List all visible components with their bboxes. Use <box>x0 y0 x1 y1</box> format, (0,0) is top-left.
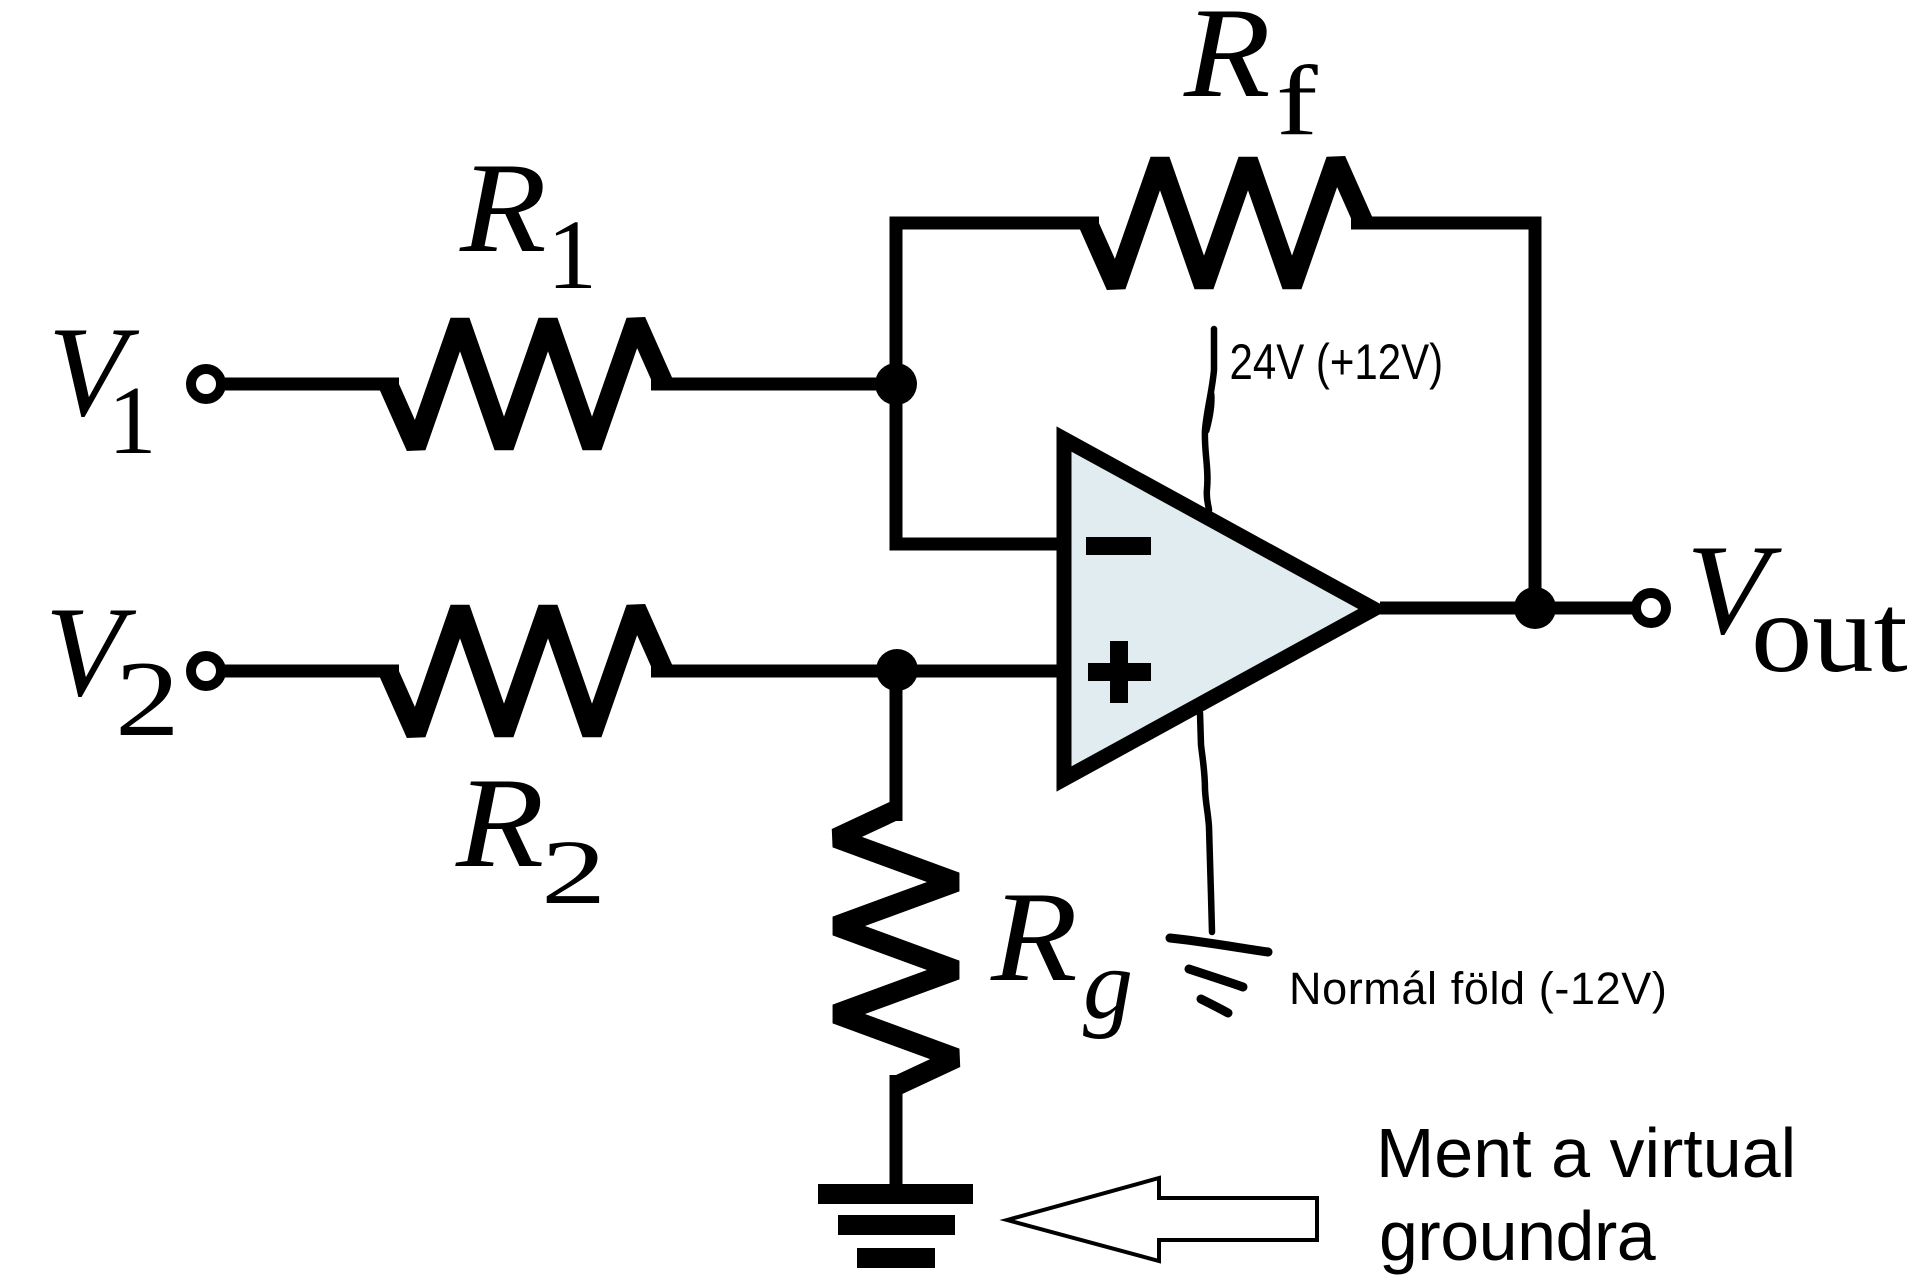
svg-text:1: 1 <box>108 367 157 474</box>
ground annotation line <box>1200 713 1212 932</box>
op-amp U1 <box>1064 439 1374 779</box>
svg-text:g: g <box>1083 929 1133 1040</box>
svg-text:2: 2 <box>541 822 606 924</box>
svg-text:1: 1 <box>547 199 597 310</box>
label V1 <box>48 300 157 474</box>
svg-text:R: R <box>1183 0 1271 125</box>
wire Rg to ground <box>890 1075 903 1194</box>
resistor Rg <box>836 810 956 1086</box>
node B (non-inverting junction) <box>876 649 918 691</box>
svg-text:Normál föld (-12V): Normál föld (-12V) <box>1289 963 1667 1014</box>
wire R2 to non-inverting input <box>651 665 1062 678</box>
resistor R2 <box>388 608 664 734</box>
wire node A up to feedback corner <box>896 223 1099 390</box>
svg-text:R: R <box>990 866 1078 1009</box>
label R1 <box>459 137 597 310</box>
wire V2 to R2 <box>221 665 399 678</box>
wire node A down to inverting input <box>896 378 1062 544</box>
label Ment a virtual groundra <box>1376 1114 1796 1275</box>
svg-text:f: f <box>1276 46 1318 156</box>
wire R1 to node A <box>651 378 902 391</box>
ground <box>818 1184 973 1268</box>
label V2 <box>45 580 180 759</box>
hand-drawn normal ground mark <box>1170 938 1268 1013</box>
svg-text:R: R <box>455 751 544 894</box>
plus sign (non-inverting input) <box>1088 641 1151 703</box>
output terminal Vout <box>1636 593 1666 623</box>
label R2 <box>455 751 606 923</box>
supply annotation line <box>1205 329 1214 510</box>
resistor Rf <box>1088 160 1364 286</box>
input terminal V2 <box>191 656 221 686</box>
resistor R1 <box>388 321 664 447</box>
label Rg <box>990 866 1133 1040</box>
output node <box>1514 587 1556 629</box>
minus sign (inverting input) <box>1086 537 1151 555</box>
svg-text:Ment a virtual: Ment a virtual <box>1376 1114 1796 1192</box>
label Normal ground <box>1289 963 1667 1014</box>
label Vout <box>1686 518 1908 696</box>
svg-text:2: 2 <box>115 639 180 759</box>
svg-text:out: out <box>1751 572 1908 696</box>
svg-text:R: R <box>459 137 547 280</box>
label 24V (+12V) <box>1230 334 1444 390</box>
arrow to virtual ground <box>1007 1178 1317 1261</box>
svg-text:groundra: groundra <box>1379 1197 1656 1275</box>
output wire <box>1380 602 1640 615</box>
wire node B down to Rg <box>890 665 903 821</box>
node A (inverting input junction) <box>875 363 917 405</box>
input terminal V1 <box>191 369 221 399</box>
svg-text:24V (+12V): 24V (+12V) <box>1230 334 1444 390</box>
wire V1 to R1 <box>221 378 399 391</box>
label Rf <box>1183 0 1318 156</box>
wire Rf to output corner <box>1351 223 1535 600</box>
